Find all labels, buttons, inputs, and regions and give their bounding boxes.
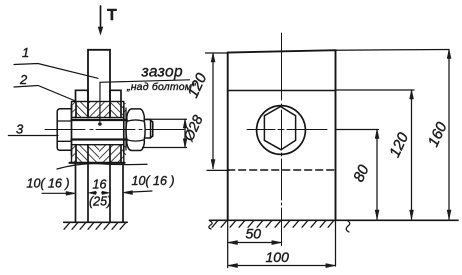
- svg-text:100: 100: [266, 249, 290, 265]
- ground hatching left view: [64, 222, 126, 229]
- svg-text:T: T: [107, 7, 117, 24]
- dim 160 line: [448, 50, 450, 220]
- dim ext right 120: [336, 89, 415, 91]
- leader 2: [14, 86, 76, 102]
- nut washer line 2: [125, 108, 127, 150]
- bolt head facet line upper: [58, 120, 72, 122]
- bolt threaded end: [144, 120, 150, 139]
- dim 10(16) right arrow: [126, 191, 152, 192]
- lower band hatch plate3: [110, 145, 124, 163]
- upper band divider p3: [120, 102, 122, 118]
- svg-text:зазор: зазор: [141, 64, 184, 81]
- bolt shank bottom line: [72, 138, 127, 140]
- svg-text:120: 120: [184, 70, 210, 100]
- lower band hatch plate1: [76, 145, 88, 163]
- bolt head facet line lower: [58, 140, 72, 142]
- ground break mark left: [209, 221, 212, 229]
- dim 16 arrows: [91, 192, 97, 194]
- extension below ground right: [335, 220, 337, 266]
- bolt head right face / washer left face: [71, 105, 73, 155]
- dim ext right 160 (top): [336, 49, 450, 52]
- svg-text:50: 50: [246, 226, 262, 242]
- svg-text:2: 2: [19, 72, 28, 87]
- svg-text:10( 16 ): 10( 16 ): [132, 174, 175, 188]
- svg-text:1: 1: [22, 45, 29, 60]
- svg-text:3: 3: [16, 122, 24, 137]
- svg-text:120: 120: [386, 130, 412, 160]
- lower band divider p1: [75, 145, 77, 163]
- ground hatching right view: [212, 220, 334, 227]
- leader 3: [8, 135, 58, 137]
- bolt head: [57, 109, 71, 151]
- dim 120 left ext bottom: [207, 169, 229, 171]
- bolt circle: [257, 106, 306, 155]
- leader 1: [14, 64, 98, 79]
- svg-text:80: 80: [350, 162, 373, 185]
- upper band hatch web: [88, 102, 110, 118]
- dim Ø28 line: [184, 119, 186, 147]
- lower band hatch washerL: [72, 145, 77, 163]
- dim ext right 80: [336, 129, 379, 131]
- lower hatched band outline: [72, 145, 124, 163]
- lower band divider p3: [120, 145, 122, 163]
- column outer right: [122, 163, 124, 222]
- column inner left: [87, 163, 89, 222]
- zazor leader dot: [98, 122, 102, 126]
- dim 80 line: [376, 130, 378, 220]
- upper band divider web right: [109, 102, 111, 118]
- lower band bottom heavy line: [70, 162, 125, 164]
- svg-text:160: 160: [425, 119, 451, 149]
- nut facet line lower: [127, 140, 145, 141]
- dim 120 right line: [411, 90, 413, 219]
- dim 50 line: [228, 242, 281, 244]
- lower band hatch web: [88, 145, 99, 163]
- plate outline: [228, 50, 336, 220]
- column lines below joint: outer left: [75, 163, 77, 222]
- bolt hexagon: [264, 107, 295, 150]
- nut washer line: [123, 106, 125, 152]
- dim 120 left ext top: [206, 52, 228, 54]
- ground break mark right: [346, 221, 350, 233]
- svg-text:(25): (25): [89, 195, 111, 209]
- hidden dashed line: [228, 169, 336, 171]
- horizontal centerline: [247, 129, 327, 131]
- svg-text:10( 16 ): 10( 16 ): [27, 177, 70, 191]
- zazor leader line: [100, 80, 190, 122]
- web plate right edge lower: [109, 90, 111, 117]
- column inner right: [109, 163, 111, 222]
- dim Ø28 ext bottom: [143, 147, 187, 149]
- nut facet line upper: [127, 120, 145, 121]
- left cover plate top edge: [76, 90, 89, 101]
- dim Ø28 ext top: [146, 118, 187, 120]
- extension below ground center: [281, 220, 283, 245]
- svg-text:16: 16: [93, 178, 107, 192]
- plate inner horizontal line: [228, 90, 336, 92]
- upper band hatch plate3: [110, 102, 124, 118]
- freehand curve under band: [57, 164, 147, 169]
- upper band divider web left: [87, 102, 89, 118]
- upper band divider p1: [75, 102, 77, 118]
- lower band divider web right: [109, 145, 111, 163]
- web plate (tee web): [88, 50, 110, 101]
- bolt thread end cap: [151, 121, 153, 138]
- lower band divider web left: [87, 145, 89, 163]
- dim 120 left line: [212, 53, 214, 169]
- dim 10(16) left arrow: [42, 192, 73, 194]
- nut body: [126, 109, 145, 151]
- bolt shank top line: [72, 119, 127, 121]
- upper hatched band outline: [72, 102, 124, 118]
- dim 100 line: [228, 265, 335, 267]
- vertical centerline: [281, 33, 283, 246]
- load arrow T line: [100, 6, 102, 27]
- ground line left view: [64, 221, 127, 223]
- bolt axis centerline: [45, 129, 184, 131]
- upper band hatch washerL: [72, 102, 77, 118]
- extension below ground left: [227, 220, 229, 267]
- upper band hatch plate1: [76, 102, 88, 118]
- ground line right view: [210, 219, 459, 221]
- right cover plate top edge: [110, 90, 121, 101]
- web plate left edge lower: [87, 90, 89, 117]
- load arrow T head: [98, 27, 103, 35]
